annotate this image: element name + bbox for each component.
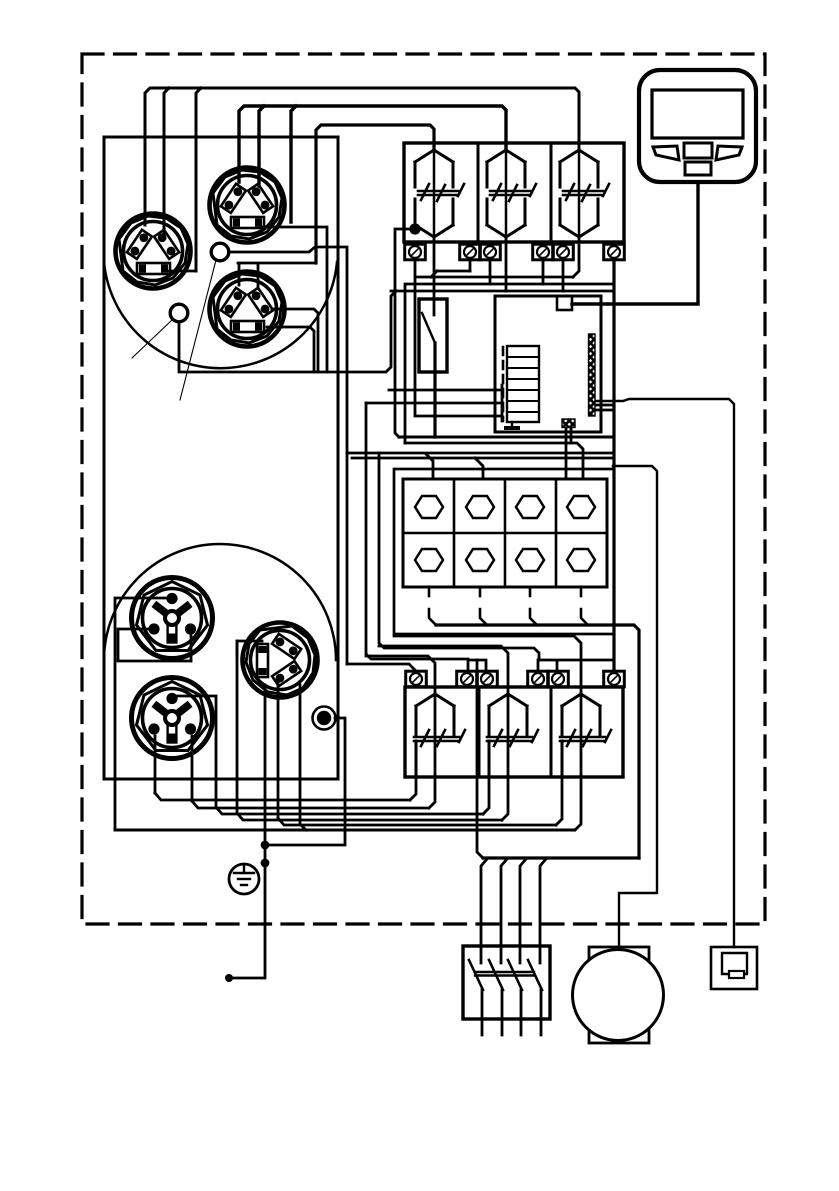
wire screw X6 long drop	[612, 260, 615, 671]
wire J1 riser	[164, 88, 169, 235]
contactor K4 coil	[414, 694, 465, 777]
wire K5 out a	[483, 776, 489, 814]
wire pad pair a	[565, 427, 568, 479]
wire TB row D	[366, 656, 435, 694]
board ground bar	[506, 422, 518, 428]
junction dot	[261, 841, 270, 850]
hole B leader line	[132, 320, 172, 358]
wire screw X3 drop	[489, 260, 492, 284]
wire J2 riser	[259, 106, 264, 186]
wire bottom bus 6	[115, 829, 574, 832]
wire bottom bus 5	[278, 682, 556, 825]
pin header strip on board	[589, 334, 596, 416]
wire generator run	[613, 466, 657, 947]
wire J3 right a	[272, 309, 318, 372]
hole B	[170, 304, 188, 322]
wire ground drop	[229, 845, 265, 978]
terminal screws X1..X6 (top row)	[405, 244, 426, 260]
wire screw X4 drop	[542, 260, 545, 284]
wire bus under board a	[399, 437, 614, 469]
wire K6 out b	[575, 776, 581, 830]
contactor K6 coil	[560, 694, 611, 777]
wire TB row E	[347, 664, 416, 671]
receptacle J3 (twist-lock, mid)	[210, 272, 285, 347]
wire bottom bus 3	[216, 696, 483, 814]
wire J6 top pin	[177, 695, 216, 698]
wire display drop	[572, 182, 698, 304]
wire bottom bus 4	[237, 641, 502, 820]
wire pad pair b	[570, 427, 573, 443]
wire TB row C	[379, 646, 508, 694]
wire bus L3 top	[316, 125, 434, 263]
T mark 2	[501, 398, 504, 408]
wire breaker drop 4	[540, 859, 546, 1035]
protective earth symbol	[229, 864, 259, 894]
wire bridge X8 X9	[468, 660, 486, 671]
wire K5 out b	[502, 776, 508, 820]
wire K4 out a	[410, 776, 416, 800]
wire K4 out b	[429, 776, 435, 808]
fuse-switch F1	[419, 299, 447, 372]
wire mesh bus d	[391, 290, 612, 293]
wire screw X2 drop	[469, 260, 472, 271]
wire bus under board b	[405, 443, 583, 479]
wire bus L2 top	[239, 106, 506, 182]
receptacle J5 (3-pin, lower left upper)	[132, 578, 213, 659]
wire J1 bottom riser	[196, 88, 201, 271]
hole A	[211, 243, 229, 261]
wire J3 top slots	[238, 263, 316, 288]
wire breaker drop 2	[501, 859, 507, 1035]
contactor block K1-K3 outline	[404, 143, 624, 242]
wire strip out c	[352, 410, 612, 458]
panel rectangle	[104, 137, 338, 779]
wire board T line 1	[389, 389, 502, 392]
wire K1 coil centre	[433, 151, 436, 237]
wire J4 bottom a	[264, 685, 267, 845]
receptacle J6 (3-pin, lower left lower)	[132, 678, 213, 759]
enclosure dashed border	[82, 54, 765, 924]
receptacle J4 (twist-lock, rotated, lower cluster)	[243, 623, 318, 698]
wire breaker drop 3	[520, 859, 526, 1035]
wire J6 left pin	[154, 736, 157, 793]
wire bus L1 top	[145, 88, 579, 225]
wire hole B run	[179, 291, 396, 372]
board output pad	[562, 419, 575, 428]
terminal strip grid	[403, 479, 607, 587]
contactor K2 coil	[487, 150, 536, 237]
wire J4 left slot	[237, 641, 262, 656]
wire J1 bottom slot	[168, 270, 196, 273]
wire left vert to bridge	[366, 403, 468, 659]
wire J4 drop c bevel	[300, 685, 306, 830]
hex bolts	[415, 496, 595, 571]
wire hole A run	[229, 247, 612, 479]
contactor block K4-K6 outline	[405, 687, 623, 777]
wire K6 out a	[556, 776, 562, 825]
T mark X1	[501, 411, 504, 421]
wire mesh bus b	[415, 276, 573, 279]
wire J2 right riser	[291, 106, 296, 222]
receptacle J2 (twist-lock, top)	[210, 168, 285, 243]
wire board T line 2	[366, 402, 502, 405]
T mark 1	[501, 385, 504, 395]
contactor K5 coil	[487, 694, 538, 777]
control board A1	[495, 296, 601, 432]
terminal strip TB outline	[394, 469, 614, 634]
terminal stubs	[429, 587, 581, 596]
wire bottom bus 2	[192, 801, 428, 808]
wire J3 right b	[267, 327, 314, 372]
indicator lamp DS1	[313, 707, 336, 730]
wire row E source	[346, 453, 349, 664]
wire J5 left pin	[118, 629, 191, 661]
wire K1 dot branch	[395, 229, 415, 437]
wire lamp run	[265, 718, 345, 845]
wire TB row B	[394, 636, 581, 694]
terminal hooks to neutral bus	[429, 609, 588, 625]
wire K3 coil centre	[578, 151, 581, 237]
wire K1 coil bottom to fuse	[433, 237, 436, 315]
junction dot on K1	[409, 223, 420, 234]
wire bridge riser	[477, 660, 483, 858]
circuit breaker QF	[463, 946, 550, 1019]
relay bank on board	[503, 346, 539, 422]
wire J6 right pin	[191, 736, 194, 801]
wire end dot	[225, 974, 233, 982]
bottom panel arc	[104, 544, 336, 660]
junction dot	[261, 859, 270, 868]
wire K2 coil centre	[505, 151, 508, 237]
wire mesh bus c	[405, 284, 612, 443]
wire breaker drop 1	[481, 859, 487, 1035]
wire bridge X10 X11	[538, 660, 613, 671]
wire mesh bus a	[431, 271, 470, 277]
terminal screws X7..X12 (bottom row)	[406, 671, 427, 687]
wire J5 right pin	[190, 633, 193, 661]
wire screw X5 drop	[562, 260, 565, 291]
remote connector box	[711, 947, 757, 989]
wire J5 top pin	[115, 598, 171, 830]
contactor K1 coil	[415, 150, 464, 237]
wire fuse to bus	[433, 343, 436, 437]
wire strip out long	[595, 399, 734, 947]
generator G	[573, 947, 664, 1043]
contactor K3 coil	[560, 150, 609, 237]
wire bottom bus 1	[155, 793, 410, 800]
wire bus under board c	[475, 458, 483, 479]
wire K2 coil bottom	[505, 237, 508, 291]
wire K3 coil bottom	[573, 237, 579, 277]
wire breaker feed bus	[483, 856, 639, 859]
receptacle J1 (twist-lock, upper left)	[116, 214, 191, 289]
wire screw X1 drop	[415, 260, 502, 416]
display module HMI	[639, 70, 756, 182]
wire J2 bottom slot	[262, 227, 327, 372]
hole A leader line	[180, 260, 216, 400]
top panel arc	[104, 262, 337, 368]
wire strip out b	[595, 404, 612, 407]
wire neutral bus vertical	[436, 625, 639, 858]
wire left vert to bridge2	[379, 453, 539, 660]
